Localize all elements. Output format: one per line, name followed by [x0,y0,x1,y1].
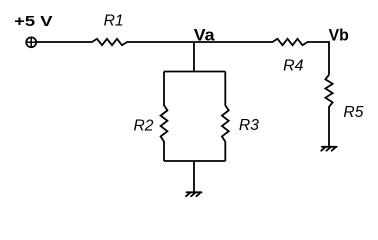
svg-text:R5: R5 [343,104,363,121]
svg-text:R4: R4 [283,58,304,75]
svg-text:R3: R3 [239,117,259,134]
svg-text:R2: R2 [134,117,154,134]
svg-text:Vb: Vb [329,26,349,44]
svg-text:R1: R1 [104,13,124,30]
svg-text:+5 V: +5 V [14,13,53,30]
svg-text:Va: Va [194,27,216,45]
